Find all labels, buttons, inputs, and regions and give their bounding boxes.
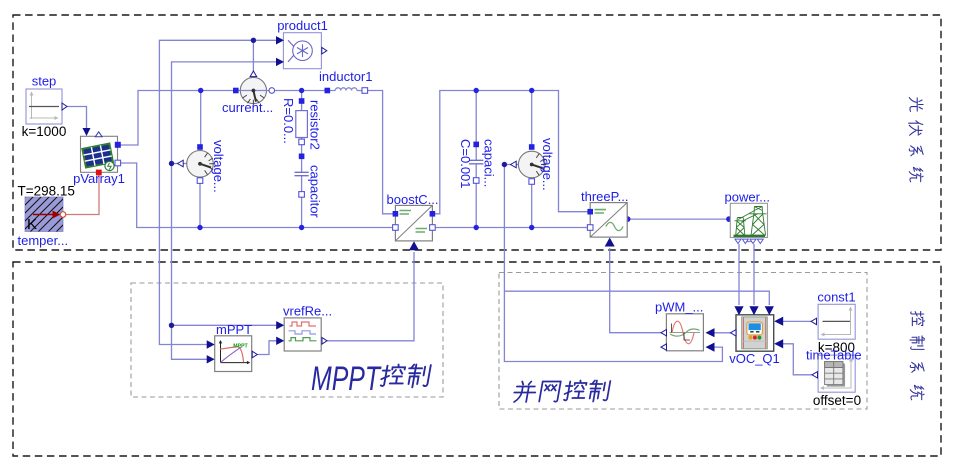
pin voltage2 output triangle (511, 161, 517, 168)
pin vrefRe in2 arrow (276, 337, 284, 345)
svg-text:threeP...: threeP... (581, 189, 628, 204)
arrow vOC top in3 (765, 306, 774, 315)
svg-text:C=0.001: C=0.001 (458, 139, 473, 189)
pin threeP left top (587, 209, 593, 215)
svg-text:pVarray1: pVarray1 (73, 171, 125, 186)
pin mPPT in1 arrow (207, 340, 215, 348)
svg-text:voltage...: voltage... (540, 138, 555, 191)
pin mPPT in2 arrow (207, 355, 215, 363)
outer dashed box: control system region (13, 262, 941, 456)
wire timeTable to vOC (783, 344, 813, 375)
pin capacitor bottom (299, 192, 305, 198)
vrefRe PWM reference block (276, 304, 332, 352)
vOC_Q1 controller block (729, 306, 783, 366)
wire temperature red (66, 175, 100, 215)
wire step->pVarray (62, 107, 87, 129)
pin vOC out (731, 330, 737, 336)
pin pVarray minus (115, 160, 121, 166)
DC-link capacitor (capaci...) (458, 139, 497, 189)
svg-text:K: K (27, 216, 37, 233)
pin resistor top (299, 98, 305, 104)
arrow boost gate (409, 241, 419, 250)
pin mPPT out (252, 351, 257, 358)
svg-text:MPPT: MPPT (311, 360, 382, 398)
wire voltage2 output tap (504, 164, 518, 166)
big tower (750, 207, 767, 236)
pin product1 in2 arrow (276, 58, 284, 66)
svg-text:timeTable: timeTable (806, 348, 862, 363)
wire power down 2 (753, 244, 755, 305)
pin pVarray plus (115, 142, 121, 148)
resistor2 (281, 98, 323, 150)
wire const1 to vOC (783, 320, 812, 322)
vertical label 光伏系统 (909, 98, 924, 182)
label MPPT控制 (311, 360, 431, 398)
arrow vOC right in2 (774, 339, 783, 348)
node bottom bus / capacitor2 (474, 225, 479, 230)
node top bus / resistor (299, 88, 304, 93)
mPPT block (207, 322, 258, 372)
threeP inverter block (581, 189, 628, 247)
inductor1 pins and label (319, 69, 372, 93)
wire pVarray- bottom bus (118, 163, 395, 228)
svg-text:inductor1: inductor1 (319, 69, 372, 84)
current sensor (222, 71, 275, 115)
pin product1 in1 arrow (276, 36, 284, 44)
pin vrefRe in1 arrow (276, 321, 284, 329)
pin current left (233, 88, 239, 94)
svg-text:temper...: temper... (18, 233, 69, 248)
wire voltage2 signal down to pWM in2 (504, 165, 722, 362)
pin pVarray temperature (red) (96, 170, 102, 176)
pin pWM in1 arrow (706, 328, 715, 337)
pin voltage1 top (197, 144, 203, 150)
outer dashed box: PV system region (13, 15, 941, 250)
wire voltage1 output tap (172, 163, 188, 165)
pin voltage1 output triangle (178, 160, 184, 167)
boostC converter block (387, 192, 439, 250)
svg-text:offset=0: offset=0 (813, 393, 861, 408)
temperature source block (14, 182, 92, 248)
wire pVarray+ to top bus (118, 91, 335, 146)
node threeP AC out (625, 216, 631, 222)
pin pVarray top open triangle (95, 132, 102, 137)
wire vOC out to pWM in1 (714, 332, 734, 334)
node voltage1 output junction (169, 161, 174, 166)
svg-text:resistor2: resistor2 (308, 100, 323, 150)
inner dashed box: grid control (499, 273, 867, 410)
wire inductor to boost (357, 91, 396, 214)
svg-text:boostC...: boostC... (387, 192, 439, 207)
inductor arcs (335, 88, 357, 91)
wire vrefRe out to boost gate (327, 252, 414, 341)
arrow vOC right in1 (774, 317, 783, 326)
svg-text:pWM_...: pWM_... (655, 300, 703, 315)
pin current output triangle (250, 71, 257, 77)
capacitor (left branch) (295, 154, 323, 219)
wire pWM out1 to threeP gate (610, 248, 664, 333)
label 并网控制 (513, 381, 611, 403)
wire voltage2 risers (531, 91, 533, 228)
pin pWM in2 arrow (706, 343, 715, 352)
pin timeTable out (812, 372, 818, 378)
pin threeP left bottom (587, 225, 593, 231)
node bottom bus / voltage1 (197, 225, 202, 230)
vertical label 控制系统 (910, 312, 925, 400)
pin inductor right (362, 88, 368, 94)
node DC bus / voltage2 (529, 88, 534, 93)
wire current signal to product1 and mPPT (159, 40, 276, 344)
voltage sensor 1 (178, 140, 227, 193)
const1 block (811, 290, 856, 356)
arrow step into pVarray (83, 128, 91, 136)
svg-text:power...: power... (725, 190, 771, 205)
pin boost right bottom (430, 225, 436, 231)
power grid block (725, 190, 771, 244)
svg-text:R=0.0...: R=0.0... (281, 98, 296, 144)
pin vrefRe out (322, 338, 327, 345)
timeTable block (806, 348, 862, 409)
svg-text:capacitor: capacitor (308, 165, 323, 218)
node vrefRe in1 junction (169, 323, 174, 328)
pin voltage1 bottom (197, 178, 203, 184)
svg-text:capaci...: capaci... (482, 139, 497, 187)
pin boost left bottom (393, 225, 399, 231)
wire power down 1 (738, 244, 740, 305)
node bottom bus / capacitor1 (299, 225, 304, 230)
small tower (735, 218, 747, 236)
wire resistor branch (301, 91, 303, 228)
pin voltage2 top (529, 144, 535, 150)
wire boost right to DC bus to threeP (432, 91, 590, 214)
wire voltage1 bottom riser (199, 181, 201, 228)
pins power bottom (735, 239, 741, 243)
pin voltage2 bottom (529, 179, 535, 185)
pin capacitor top (299, 154, 305, 160)
wire threeP AC out to power (628, 218, 729, 220)
node power left pin (726, 216, 732, 222)
pin boost right top (430, 211, 436, 217)
voltage sensor 2 (511, 138, 556, 191)
arrow threeP gate (605, 238, 615, 247)
pWM comparator block (655, 300, 715, 352)
svg-text:T=298.15: T=298.15 (18, 184, 75, 199)
wire right bottom bus (432, 227, 590, 229)
pin resistor bottom (299, 139, 305, 145)
arrow vOC top in2 (749, 306, 758, 315)
node current signal junction (251, 38, 256, 43)
node voltage2 output junction (502, 162, 507, 167)
svg-text:voltage...: voltage... (211, 140, 226, 193)
wire voltage signal to vrefRe (172, 324, 278, 326)
wire voltage2 signal branch to vOC top3 (504, 291, 769, 305)
inner dashed box: MPPT control (131, 283, 443, 397)
node bottom bus / voltage2 (529, 225, 534, 230)
svg-text:vOC_Q1: vOC_Q1 (729, 351, 780, 366)
svg-text:vrefRe...: vrefRe... (283, 304, 332, 319)
svg-text:MPPT: MPPT (233, 344, 248, 350)
arrow vOC top in1 (734, 306, 743, 315)
pin boost left top (393, 211, 399, 217)
wire power pins jumper (745, 241, 753, 243)
pin const1 out (811, 318, 817, 324)
pin pWM out1 (661, 330, 667, 336)
wires (738, 211, 758, 222)
wire mPPT out to vrefRe in2 (257, 341, 278, 355)
wire current sensor output (252, 40, 254, 77)
svg-text:mPPT: mPPT (216, 322, 252, 337)
svg-text:const1: const1 (817, 290, 855, 305)
svg-text:k=1000: k=1000 (22, 124, 67, 139)
product1 multiplier block (276, 18, 328, 69)
wire voltage signal to product1 and mPPT (172, 62, 277, 359)
svg-text:step: step (32, 74, 57, 89)
node DC bus / capacitor (474, 88, 479, 93)
node top bus / voltage1 (198, 88, 203, 93)
pin pWM out2 (661, 344, 667, 350)
wire voltage1 top riser (200, 91, 202, 148)
wire DC-link capacitor branch (475, 91, 477, 228)
pin capaci top (473, 142, 479, 148)
svg-text:current...: current... (222, 100, 273, 115)
step source block (22, 74, 67, 140)
pin product1 out (322, 47, 327, 54)
pin capaci bottom (473, 178, 479, 184)
svg-text:product1: product1 (277, 18, 328, 33)
pin inductor left (325, 88, 331, 94)
pin current right (269, 88, 275, 94)
pVarray1 PV array block (73, 128, 125, 186)
